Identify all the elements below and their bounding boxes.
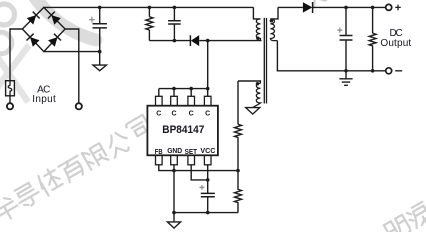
IC U1 top pins (C x4) bbox=[156, 96, 212, 105]
junction: drain node bbox=[206, 39, 210, 43]
svg-text:SET: SET bbox=[185, 149, 198, 156]
wire: snubber bottom node bbox=[149, 40, 190, 42]
junction: primary ground node bbox=[98, 50, 102, 54]
AC terminal 1 bbox=[7, 103, 13, 109]
ground (auxiliary winding) bbox=[246, 108, 260, 115]
diode D1 (bridge top-left) bbox=[27, 12, 40, 25]
junction: snubber node / C2 bbox=[173, 39, 177, 43]
IC U1 bottom pins (FB GND SET VCC) bbox=[156, 155, 212, 165]
junction: SET/VCC bbox=[206, 178, 210, 182]
auxiliary winding bbox=[238, 81, 260, 83]
primary winding bbox=[256, 19, 260, 41]
wire: top rail to C4 bbox=[345, 7, 347, 35]
junction: top rail / snubber R bbox=[148, 6, 152, 10]
phase dot: secondary bbox=[270, 19, 274, 23]
capacitor C1 (bulk electrolytic) bbox=[89, 17, 107, 28]
pin labels: FB GND SET VCC bbox=[155, 148, 216, 156]
wire: C3 to ground rail bbox=[207, 197, 209, 213]
svg-text:C: C bbox=[189, 111, 194, 118]
capacitor C2 (clamp snubber) bbox=[168, 7, 181, 40]
wire: IC bottom ground rail bbox=[174, 212, 238, 214]
phase dot: primary bbox=[256, 37, 260, 41]
svg-text:C: C bbox=[171, 111, 176, 118]
junction: GND node bbox=[172, 211, 176, 215]
capacitor C4 (output electrolytic) bbox=[337, 28, 352, 40]
junction: top rail / snubber C bbox=[173, 6, 177, 10]
op-amp/controller IC U1 BP84147 body bbox=[147, 106, 218, 156]
wire: secondary bottom return rail bbox=[277, 41, 385, 71]
resistor R3 (aux divider lower) bbox=[235, 171, 242, 213]
svg-text:C: C bbox=[205, 111, 210, 118]
wire: top rail to primary winding bbox=[253, 7, 260, 19]
diode D4 (bridge bottom-right) bbox=[48, 34, 61, 47]
label: + bbox=[395, 5, 401, 11]
ground (primary input) bbox=[93, 52, 106, 71]
wire: fuse to AC terminal 1 bbox=[9, 96, 11, 104]
wire: VCC pin down to C3 bbox=[207, 165, 209, 194]
wire: drain node to IC top pins rail bbox=[207, 41, 209, 89]
svg-text:GND: GND bbox=[167, 148, 182, 155]
wire: aux winding to R2 bbox=[237, 81, 239, 124]
svg-text:Output: Output bbox=[380, 38, 411, 49]
svg-text:VCC: VCC bbox=[200, 148, 215, 155]
wire: C1 to primary ground node bbox=[99, 29, 101, 52]
wire: bridge right corner to AC terminal 2 bbox=[65, 29, 79, 103]
svg-text:DC: DC bbox=[390, 28, 403, 39]
resistor R4 (load) bbox=[369, 7, 376, 70]
junction: top rail / R4 bbox=[371, 6, 375, 10]
transformer T1 bbox=[238, 7, 278, 107]
wire: GND pin down bbox=[173, 165, 175, 213]
resistor R2 (aux divider upper) bbox=[235, 124, 242, 170]
label: - bbox=[395, 70, 402, 72]
wire: SET pin to VCC line bbox=[191, 165, 208, 180]
junction: FB line / divider bbox=[236, 169, 240, 173]
DC output terminal + bbox=[386, 4, 392, 10]
junction: top rail / C4 bbox=[344, 6, 348, 10]
wire: output top rail bbox=[313, 6, 386, 8]
diode D5 (clamp, cathode left) bbox=[190, 35, 199, 46]
svg-text:Input: Input bbox=[32, 94, 56, 105]
wire: top rail to C1 bbox=[99, 7, 101, 23]
wire: rectified HV top rail bbox=[44, 6, 254, 8]
DC output terminal - bbox=[386, 68, 392, 74]
earth ground (output) bbox=[339, 71, 352, 86]
junction: pin rail dots bbox=[172, 87, 176, 91]
svg-text:FB: FB bbox=[155, 149, 163, 156]
junction: C3/ground rail bbox=[206, 211, 210, 215]
AC terminal 2 bbox=[76, 103, 82, 109]
wire: bridge negative to ground node bbox=[44, 51, 100, 53]
wire: bridge left corner to fuse bbox=[10, 29, 22, 81]
junction: bottom rail / R4 bbox=[371, 69, 375, 73]
diode D3 (bridge bottom-left) bbox=[27, 34, 40, 47]
wire: FB pin to feedback node bbox=[159, 165, 238, 171]
fuse F1 bbox=[6, 81, 15, 96]
junction: FB/GND bbox=[172, 169, 176, 173]
capacitor C3 (VCC bypass) bbox=[200, 185, 215, 197]
phase dot: auxiliary bbox=[256, 82, 260, 86]
wire: secondary to output diode bbox=[278, 6, 303, 8]
bridge rectifier BR1 bbox=[22, 7, 65, 51]
diode D6 (output rectifier) bbox=[303, 2, 313, 13]
svg-text:BP84147: BP84147 bbox=[162, 124, 204, 136]
wire: clamp diode anode to primary bottom bbox=[199, 40, 261, 42]
wire: top pin stubs bbox=[159, 89, 208, 97]
diode D2 (bridge top-right) bbox=[48, 12, 61, 25]
wire: C4 to bottom rail bbox=[345, 40, 347, 71]
resistor R1 (clamp snubber) bbox=[146, 7, 153, 40]
wire: IC top pin rail bbox=[159, 88, 208, 90]
secondary winding bbox=[270, 7, 278, 19]
junction: bottom rail / C4 bbox=[344, 69, 348, 73]
ground (IC) bbox=[167, 213, 180, 229]
core bbox=[264, 18, 266, 104]
junction: top rail / C1 bbox=[98, 6, 102, 10]
svg-text:C: C bbox=[156, 111, 161, 118]
pin labels: C C C C bbox=[156, 111, 210, 118]
